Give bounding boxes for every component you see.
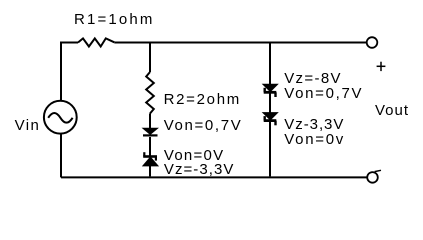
label Von=0,7V (middle) [164,118,243,135]
wire: right branch top [269,43,271,86]
terminal: Vout - (bottom) [367,170,381,182]
diode D1 (Von=0,7V, pointing down) [143,128,158,135]
label R2=2ohm [164,92,241,109]
wire: between D1 and zener D2 [149,137,151,156]
wire: between R2 and diode D1 [149,114,151,130]
wire: below zener D2 to bottom rail [149,166,151,177]
zener D4 (Vz-3,3V Von=0v, pointing down) [263,113,278,126]
label R1=1ohm [74,12,155,29]
label Vout [375,103,409,120]
wire: top rail from source to output terminal [61,43,78,102]
label Vz-3,3V [284,117,344,134]
label Von=0V [164,148,224,165]
label Von=0,7V (right) [284,86,363,103]
wire: bottom rail [61,176,367,178]
wire: middle branch top [149,43,151,73]
source Vin sine [48,113,72,123]
wire: between zener D3 and zener D4 [269,92,271,113]
zener D2 (Von=0V Vz=-3,3V, pointing up) [143,152,158,166]
resistor R2 [146,72,154,114]
zener D3 (Vz=-8V Von=0,7V, pointing down) [263,84,278,97]
label Von=0v [284,132,345,149]
terminal: Vout + (top) [367,37,378,48]
wire: below zener D4 to bottom rail [269,121,271,177]
wire: top rail right of R1 [114,42,366,44]
label Vz=-3,3V [164,162,235,179]
source Vin circle [44,101,77,134]
label Vz=-8V [284,71,342,88]
label Vin [15,118,41,135]
label + [377,62,386,71]
wire: source bottom to bottom rail [60,133,62,177]
resistor R1 [78,38,114,46]
